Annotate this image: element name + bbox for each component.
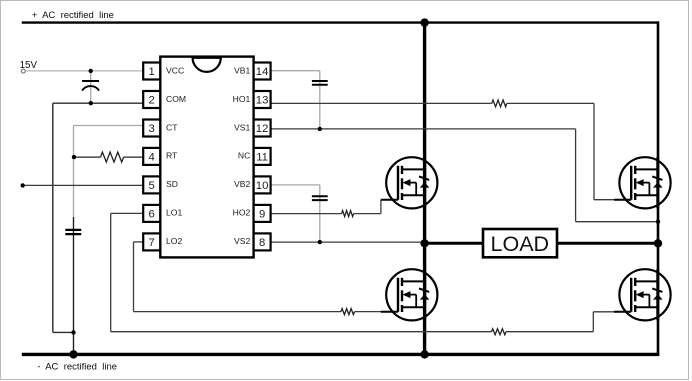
svg-text:8: 8 — [259, 237, 265, 249]
svg-text:5: 5 — [149, 180, 155, 192]
svg-text:+ AC rectified line: + AC rectified line — [32, 10, 114, 21]
svg-text:NC: NC — [238, 151, 250, 161]
svg-text:13: 13 — [256, 94, 269, 106]
svg-text:14: 14 — [256, 66, 269, 78]
svg-text:VS1: VS1 — [234, 122, 250, 132]
svg-text:RT: RT — [166, 151, 178, 161]
svg-text:1: 1 — [149, 66, 155, 78]
svg-text:VB2: VB2 — [234, 179, 250, 189]
svg-text:2: 2 — [149, 94, 155, 106]
svg-text:6: 6 — [149, 208, 155, 220]
svg-text:HO1: HO1 — [233, 94, 251, 104]
svg-text:15V: 15V — [20, 60, 38, 71]
svg-text:COM: COM — [166, 94, 186, 104]
svg-text:HO2: HO2 — [233, 208, 251, 218]
svg-text:VB1: VB1 — [234, 65, 250, 75]
svg-text:SD: SD — [166, 179, 178, 189]
svg-text:LOAD: LOAD — [491, 232, 550, 256]
svg-text:VCC: VCC — [166, 65, 184, 75]
svg-text:7: 7 — [149, 237, 155, 249]
svg-text:CT: CT — [166, 122, 178, 132]
svg-text:12: 12 — [256, 123, 269, 135]
svg-text:LO1: LO1 — [166, 208, 182, 218]
svg-text:10: 10 — [256, 180, 269, 192]
svg-text:LO2: LO2 — [166, 236, 182, 246]
svg-text:3: 3 — [149, 123, 155, 135]
svg-text:9: 9 — [259, 208, 265, 220]
svg-text:- AC rectified line: - AC rectified line — [37, 362, 117, 373]
svg-text:VS2: VS2 — [234, 236, 250, 246]
svg-text:11: 11 — [256, 151, 268, 163]
svg-text:4: 4 — [149, 151, 155, 163]
